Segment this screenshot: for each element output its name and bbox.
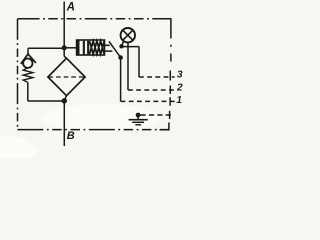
ground stub (137, 115, 139, 119)
enclosure border right: tick through ground wire (169, 111, 171, 119)
wire 3 vertical drop (138, 47, 140, 77)
ground symbol bars (129, 119, 148, 121)
check valve V1: outlet stub (27, 82, 29, 101)
wire: top junction to pressure switch box (66, 47, 76, 49)
check valve V1: ball (23, 59, 32, 68)
svg-text:1: 1 (176, 95, 182, 106)
port line A (63, 2, 65, 46)
pressure switch S1: spring lattice (90, 41, 105, 54)
enclosure dash-dot border: top side (18, 18, 171, 20)
enclosure dash-dot border: bottom side (17, 129, 169, 131)
ground node (136, 113, 141, 118)
bottom junction node (62, 98, 67, 103)
svg-text:2: 2 (176, 82, 183, 93)
wire 2 dashed run to terminal 2 (128, 89, 175, 91)
wire: filter to bottom junction (64, 96, 66, 101)
wire: check valve to bottom junction (28, 100, 65, 102)
enclosure dash-dot border: right side upper (170, 18, 172, 61)
filter F1: housing diamond (48, 58, 85, 95)
enclosure border right: tick through wire 1 (169, 97, 171, 105)
check valve V1: spring (23, 68, 33, 83)
wire 1: lower contact drop (120, 58, 122, 102)
pressure switch S1: switch arm (109, 41, 121, 57)
enclosure border right: tick through wire 2 (169, 86, 171, 95)
svg-text:B: B (67, 130, 75, 142)
svg-text:A: A (66, 2, 75, 14)
wire 3 dashed run to terminal 3 (139, 76, 175, 78)
wire: top junction to check valve (28, 47, 62, 49)
ground wire dashed run (141, 114, 173, 116)
wire: upper contact node horizontal (122, 46, 140, 48)
pressure switch S1: lower contact stub (105, 50, 113, 52)
enclosure border right: tick through wire 3 (169, 71, 171, 81)
top junction node (62, 45, 67, 50)
pressure switch S1: piston bars (83, 41, 85, 55)
pressure switch S1: upper contact stub (105, 44, 110, 46)
svg-text:3: 3 (177, 70, 183, 81)
wire 2: lamp drop (127, 42, 129, 90)
indicator lamp H1 (121, 28, 135, 42)
port line B (63, 101, 65, 146)
enclosure dash-dot border: left side (17, 19, 19, 130)
check valve V1: inlet stub (27, 48, 29, 54)
wire 1 dashed run to terminal 1 (121, 100, 175, 102)
switch lower contact node (118, 55, 123, 60)
check valve V1: seat (21, 54, 36, 64)
filter F1: element (dashed) (49, 76, 85, 78)
wire: top junction to filter (64, 48, 66, 59)
wire: upper contact to lamp (122, 41, 124, 47)
paper background (0, 0, 202, 158)
enclosure border right: bottom corner (160, 123, 169, 130)
switch upper contact node (119, 44, 123, 48)
pressure switch S1: cylinder wall (76, 40, 79, 56)
pressure switch S1: cylinder box (77, 40, 105, 55)
